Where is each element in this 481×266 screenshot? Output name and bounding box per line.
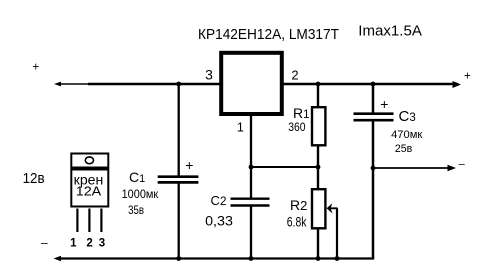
svg-text:–: – [41,236,48,250]
svg-text:+: + [32,60,39,74]
svg-text:12А: 12А [76,185,102,199]
svg-text:12в: 12в [23,170,45,187]
svg-text:0,33: 0,33 [205,213,233,229]
svg-text:+: + [185,157,193,173]
svg-text:1000мк: 1000мк [122,187,159,201]
svg-text:35в: 35в [128,203,144,217]
svg-text:3: 3 [205,67,213,83]
svg-text:470мк: 470мк [391,129,422,141]
svg-text:R2: R2 [290,197,307,213]
svg-text:25в: 25в [395,143,413,155]
svg-text:360: 360 [288,122,305,134]
svg-text:С2: С2 [211,193,227,208]
svg-text:+: + [464,69,471,83]
svg-text:2: 2 [86,237,92,249]
svg-text:+: + [380,96,388,112]
svg-text:–: – [459,158,466,170]
svg-text:3: 3 [99,237,105,249]
svg-text:1: 1 [70,237,77,249]
svg-text:6.8k: 6.8k [287,214,307,230]
svg-text:1: 1 [237,120,244,134]
svg-text:КР142ЕН12А, LM317T: КР142ЕН12А, LM317T [198,26,339,43]
svg-text:2: 2 [291,68,298,83]
svg-text:Imax1.5А: Imax1.5А [358,23,422,40]
